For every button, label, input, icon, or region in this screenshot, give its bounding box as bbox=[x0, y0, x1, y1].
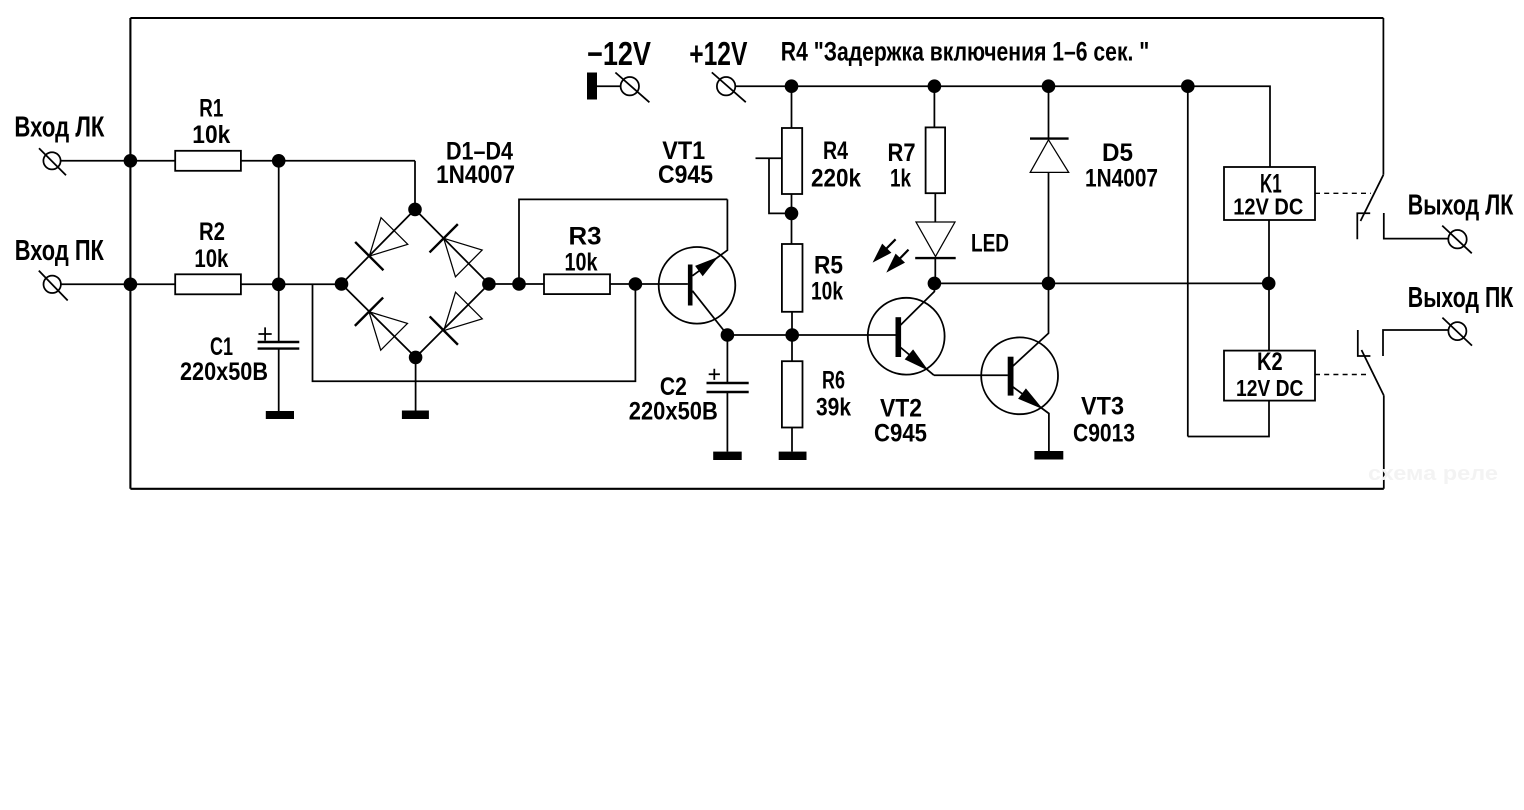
ground: C1 ground bar bbox=[266, 411, 294, 419]
svg-text:R2: R2 bbox=[199, 218, 225, 246]
wire: emitter row from VT1 to VT2 base bbox=[727, 334, 895, 336]
resistor R6 bbox=[782, 361, 803, 427]
wire: bridge diamond edges bbox=[342, 209, 489, 357]
svg-text:Вход ЛК: Вход ЛК bbox=[14, 112, 104, 144]
wire: input PK terminal to left frame bbox=[61, 283, 130, 285]
wire: R4 bottom to R5 top bbox=[791, 194, 793, 244]
svg-text:LED: LED bbox=[971, 230, 1009, 258]
node: junction D5 / VT3 collector bbox=[1042, 277, 1056, 291]
terminal: input LK circle bbox=[43, 152, 60, 169]
diode D1 (top-left arm) bbox=[355, 217, 408, 270]
LED emission arrow 1 head bbox=[873, 244, 892, 263]
node: junction below R4 (wiper tie) bbox=[785, 207, 799, 221]
node: rail junction for K2 return bbox=[1181, 79, 1195, 93]
capacitor C2 top plate bbox=[707, 382, 749, 384]
node: rail junction above R7 bbox=[928, 79, 942, 93]
svg-text:12V DC: 12V DC bbox=[1236, 375, 1303, 401]
wire: C2 bottom lead bbox=[726, 392, 728, 452]
node: junction right of R1 bbox=[272, 154, 286, 168]
node: rail junction above R4 bbox=[785, 79, 799, 93]
svg-text:+12V: +12V bbox=[689, 35, 747, 72]
diode D5 cathode bar bbox=[1030, 137, 1069, 139]
svg-text:схема реле: схема реле bbox=[1368, 463, 1498, 485]
terminal: -12V slash bbox=[615, 73, 649, 103]
svg-text:R3: R3 bbox=[569, 222, 602, 250]
wire: K1 coil bottom to K2 coil top bbox=[1268, 220, 1270, 351]
wire: D5 anode to mid bus bbox=[1048, 172, 1050, 283]
diode D4 (bottom-right arm) bbox=[430, 291, 483, 344]
resistor R4 (adjustable) bbox=[782, 128, 802, 194]
svg-text:C1: C1 bbox=[210, 333, 233, 361]
node: junction input LK on frame bbox=[124, 154, 138, 168]
wire: -12V bar to terminal bbox=[597, 85, 621, 87]
wire: right vertical from bottom frame up to K2 blade bbox=[1383, 395, 1385, 489]
svg-text:VT2: VT2 bbox=[880, 395, 922, 423]
transistor VT1 collector lead bbox=[692, 199, 727, 275]
wire: +12V rail to K1 top bbox=[735, 86, 1270, 167]
node: VT1 emitter junction bbox=[721, 328, 735, 342]
svg-text:10k: 10k bbox=[194, 245, 228, 273]
svg-text:220x50В: 220x50В bbox=[180, 358, 268, 386]
svg-text:VT3: VT3 bbox=[1081, 393, 1124, 421]
node: bridge left bbox=[335, 277, 349, 291]
wire: VT2 emitter to VT3 base bbox=[934, 374, 1008, 376]
node: bridge right bbox=[482, 277, 496, 291]
wire: bottom frame from left frame to K2 switch bbox=[130, 488, 1383, 490]
terminal: output LK circle bbox=[1448, 230, 1466, 248]
svg-text:D5: D5 bbox=[1102, 139, 1133, 167]
wire: frame to R2 left bbox=[130, 283, 175, 285]
wire: K2 contact to output PK terminal bbox=[1383, 330, 1448, 356]
ground: bridge ground bar bbox=[402, 411, 429, 420]
wire: feedback loop from input node down and around to VT1 base node bbox=[313, 284, 636, 381]
switch K1 blade bbox=[1361, 175, 1384, 221]
relay coil K2 box bbox=[1224, 351, 1315, 401]
terminal: output PK slash bbox=[1442, 318, 1472, 346]
svg-text:12V DC: 12V DC bbox=[1233, 194, 1303, 220]
svg-text:C945: C945 bbox=[658, 161, 713, 189]
node: rail junction above D5 bbox=[1042, 79, 1056, 93]
wire: rail to R7 top bbox=[933, 86, 935, 127]
svg-text:10k: 10k bbox=[811, 278, 843, 306]
resistor R3 bbox=[544, 274, 610, 294]
wire: C2 top lead bbox=[726, 335, 728, 383]
resistor R2 bbox=[175, 274, 241, 294]
node: junction R5/R6/emitter row bbox=[785, 328, 799, 342]
node: junction R3 right / VT1 base / loop bbox=[629, 277, 643, 291]
wire: R1 right to bridge top riser bbox=[241, 160, 415, 162]
wire: riser down to bridge top node bbox=[414, 161, 416, 210]
LED triangle bbox=[916, 222, 955, 257]
node: bridge top bbox=[408, 203, 422, 217]
svg-text:R7: R7 bbox=[888, 139, 916, 167]
ground: VT3 emitter ground bar bbox=[1034, 451, 1063, 460]
svg-text:Выход ЛК: Выход ЛК bbox=[1408, 190, 1514, 222]
node: junction right of R2 (C1 top) bbox=[272, 278, 286, 292]
svg-text:R5: R5 bbox=[814, 252, 843, 280]
wire: R7 bottom to LED anode bbox=[934, 193, 936, 222]
wire: R4 wiper tap bbox=[756, 158, 792, 213]
resistor R1 bbox=[175, 151, 241, 171]
svg-text:39k: 39k bbox=[816, 394, 851, 422]
label: C1 polarity plus bbox=[259, 327, 272, 340]
LED cathode bar bbox=[915, 257, 956, 259]
transistor VT1 emitter lead bbox=[692, 291, 727, 335]
wire: vertical tie between R1 and R2 outputs bbox=[278, 161, 280, 284]
terminal: output LK slash bbox=[1442, 226, 1472, 254]
switch K2 upper contact bbox=[1358, 330, 1371, 356]
wire: mid bus from LED junction to relay junction bbox=[934, 282, 1268, 284]
transistor VT1 base bar bbox=[688, 265, 693, 306]
node: bridge bottom bbox=[409, 351, 423, 365]
terminal: -12V circle bbox=[621, 77, 639, 95]
svg-text:220x50В: 220x50В bbox=[629, 398, 718, 426]
switch K2 blade bbox=[1362, 350, 1384, 395]
wire: input LK terminal to left frame bbox=[61, 160, 131, 162]
capacitor C1 bottom plate bbox=[258, 347, 300, 349]
wire: R2 right to bridge left node bbox=[241, 283, 342, 285]
node: junction K1 coil / K2 coil bbox=[1262, 277, 1276, 291]
resistor R7 bbox=[926, 127, 946, 193]
wire: rail to D5 cathode bbox=[1048, 86, 1050, 138]
wire: R5 bottom to emitter row bbox=[791, 312, 793, 335]
transistor VT3 circle bbox=[981, 337, 1058, 414]
relay coil K1 box bbox=[1224, 167, 1315, 220]
transistor VT1 collector arrow bbox=[695, 257, 718, 276]
ground: R6 ground bar bbox=[779, 452, 807, 460]
node: junction LED / VT2 collector bbox=[928, 277, 942, 291]
wire: bridge right node to R3 bbox=[489, 283, 544, 285]
LED emission arrow 2 line bbox=[900, 250, 909, 259]
transistor VT2 circle bbox=[868, 298, 945, 375]
transistor VT2 emitter arrow bbox=[905, 349, 929, 370]
wire: R3 right to VT1 base bbox=[610, 283, 688, 285]
node: junction R3 left / VT1 collector riser bbox=[512, 277, 526, 291]
wire: rail to R4 top bbox=[791, 86, 793, 128]
svg-text:R4: R4 bbox=[823, 137, 848, 165]
svg-text:Вход ПК: Вход ПК bbox=[15, 235, 104, 267]
diode D5 triangle bbox=[1030, 140, 1069, 173]
terminal: input PK circle bbox=[44, 276, 61, 293]
switch K1 lower contact bbox=[1357, 213, 1370, 239]
diode D2 (top-right arm) bbox=[430, 224, 483, 277]
wire: emitter row to R6 top bbox=[791, 335, 793, 361]
terminal: input PK slash bbox=[39, 271, 68, 301]
wire: LED cathode to mid bus bbox=[934, 258, 936, 283]
wire: C1 bottom lead bbox=[278, 349, 280, 411]
wire: C1 top lead bbox=[278, 284, 280, 342]
label: C2 polarity plus bbox=[709, 369, 720, 380]
svg-text:−12V: −12V bbox=[587, 35, 651, 72]
transistor VT3 emitter arrow bbox=[1018, 388, 1043, 409]
wire: frame to R1 left bbox=[130, 160, 175, 162]
wire: right vertical from top bus down to K1 fixed contact bbox=[1382, 18, 1384, 175]
ground: C2 ground bar bbox=[713, 452, 742, 460]
svg-text:C9013: C9013 bbox=[1073, 420, 1135, 448]
svg-text:Выход ПК: Выход ПК bbox=[1408, 282, 1514, 314]
transistor VT3 base bar bbox=[1008, 357, 1014, 396]
resistor R5 bbox=[782, 244, 803, 312]
transistor VT2 emitter lead bbox=[901, 348, 934, 376]
svg-text:R1: R1 bbox=[199, 95, 223, 123]
svg-text:1N4007: 1N4007 bbox=[436, 161, 515, 189]
svg-text:10k: 10k bbox=[192, 121, 230, 149]
wire: K2 actuation dashed link bbox=[1315, 374, 1370, 376]
transistor VT3 collector lead bbox=[1013, 283, 1049, 366]
wire: K1 actuation dashed link bbox=[1315, 192, 1371, 194]
wire: riser from R3-left junction to VT1 collector rail bbox=[519, 199, 727, 284]
LED emission arrow 1 line bbox=[886, 239, 896, 249]
transistor VT2 collector lead bbox=[901, 283, 935, 325]
svg-text:C945: C945 bbox=[874, 420, 927, 448]
wire: K1 contact to output LK terminal bbox=[1384, 213, 1449, 239]
terminal: input LK slash bbox=[39, 148, 66, 175]
svg-text:1k: 1k bbox=[890, 165, 911, 193]
LED emission arrow 2 head bbox=[886, 254, 905, 273]
wire: K2 return rail down bbox=[1187, 86, 1189, 436]
transistor VT2 base bar bbox=[896, 317, 902, 357]
wire: bridge bottom to ground bbox=[415, 357, 417, 410]
svg-text:R4 "Задержка включения 1–6 сек: R4 "Задержка включения 1–6 сек. " bbox=[781, 36, 1150, 66]
svg-text:R6: R6 bbox=[822, 367, 845, 395]
wire: top bus from left frame to K1 switch contact bbox=[130, 17, 1383, 19]
terminal: output PK circle bbox=[1448, 322, 1466, 340]
svg-text:1N4007: 1N4007 bbox=[1085, 165, 1158, 193]
transistor VT3 emitter lead bbox=[1013, 387, 1049, 451]
terminal: +12V slash bbox=[712, 72, 746, 102]
terminal: +12V circle bbox=[717, 77, 735, 95]
transistor VT1 circle bbox=[659, 247, 736, 324]
svg-text:10k: 10k bbox=[565, 249, 598, 277]
wire: left frame vertical (input bus) bbox=[129, 18, 131, 489]
capacitor C2 bottom plate bbox=[707, 391, 749, 393]
wire: K2 coil bottom to return rail bbox=[1188, 401, 1269, 437]
capacitor C1 top plate bbox=[258, 341, 300, 343]
svg-text:K2: K2 bbox=[1257, 348, 1283, 376]
diode D3 (bottom-left arm) bbox=[355, 298, 408, 351]
wire: R6 bottom to ground bbox=[791, 428, 793, 452]
svg-text:220k: 220k bbox=[811, 165, 861, 193]
node: junction input PK on frame bbox=[124, 278, 138, 292]
power: -12V supply bar bbox=[587, 73, 597, 100]
